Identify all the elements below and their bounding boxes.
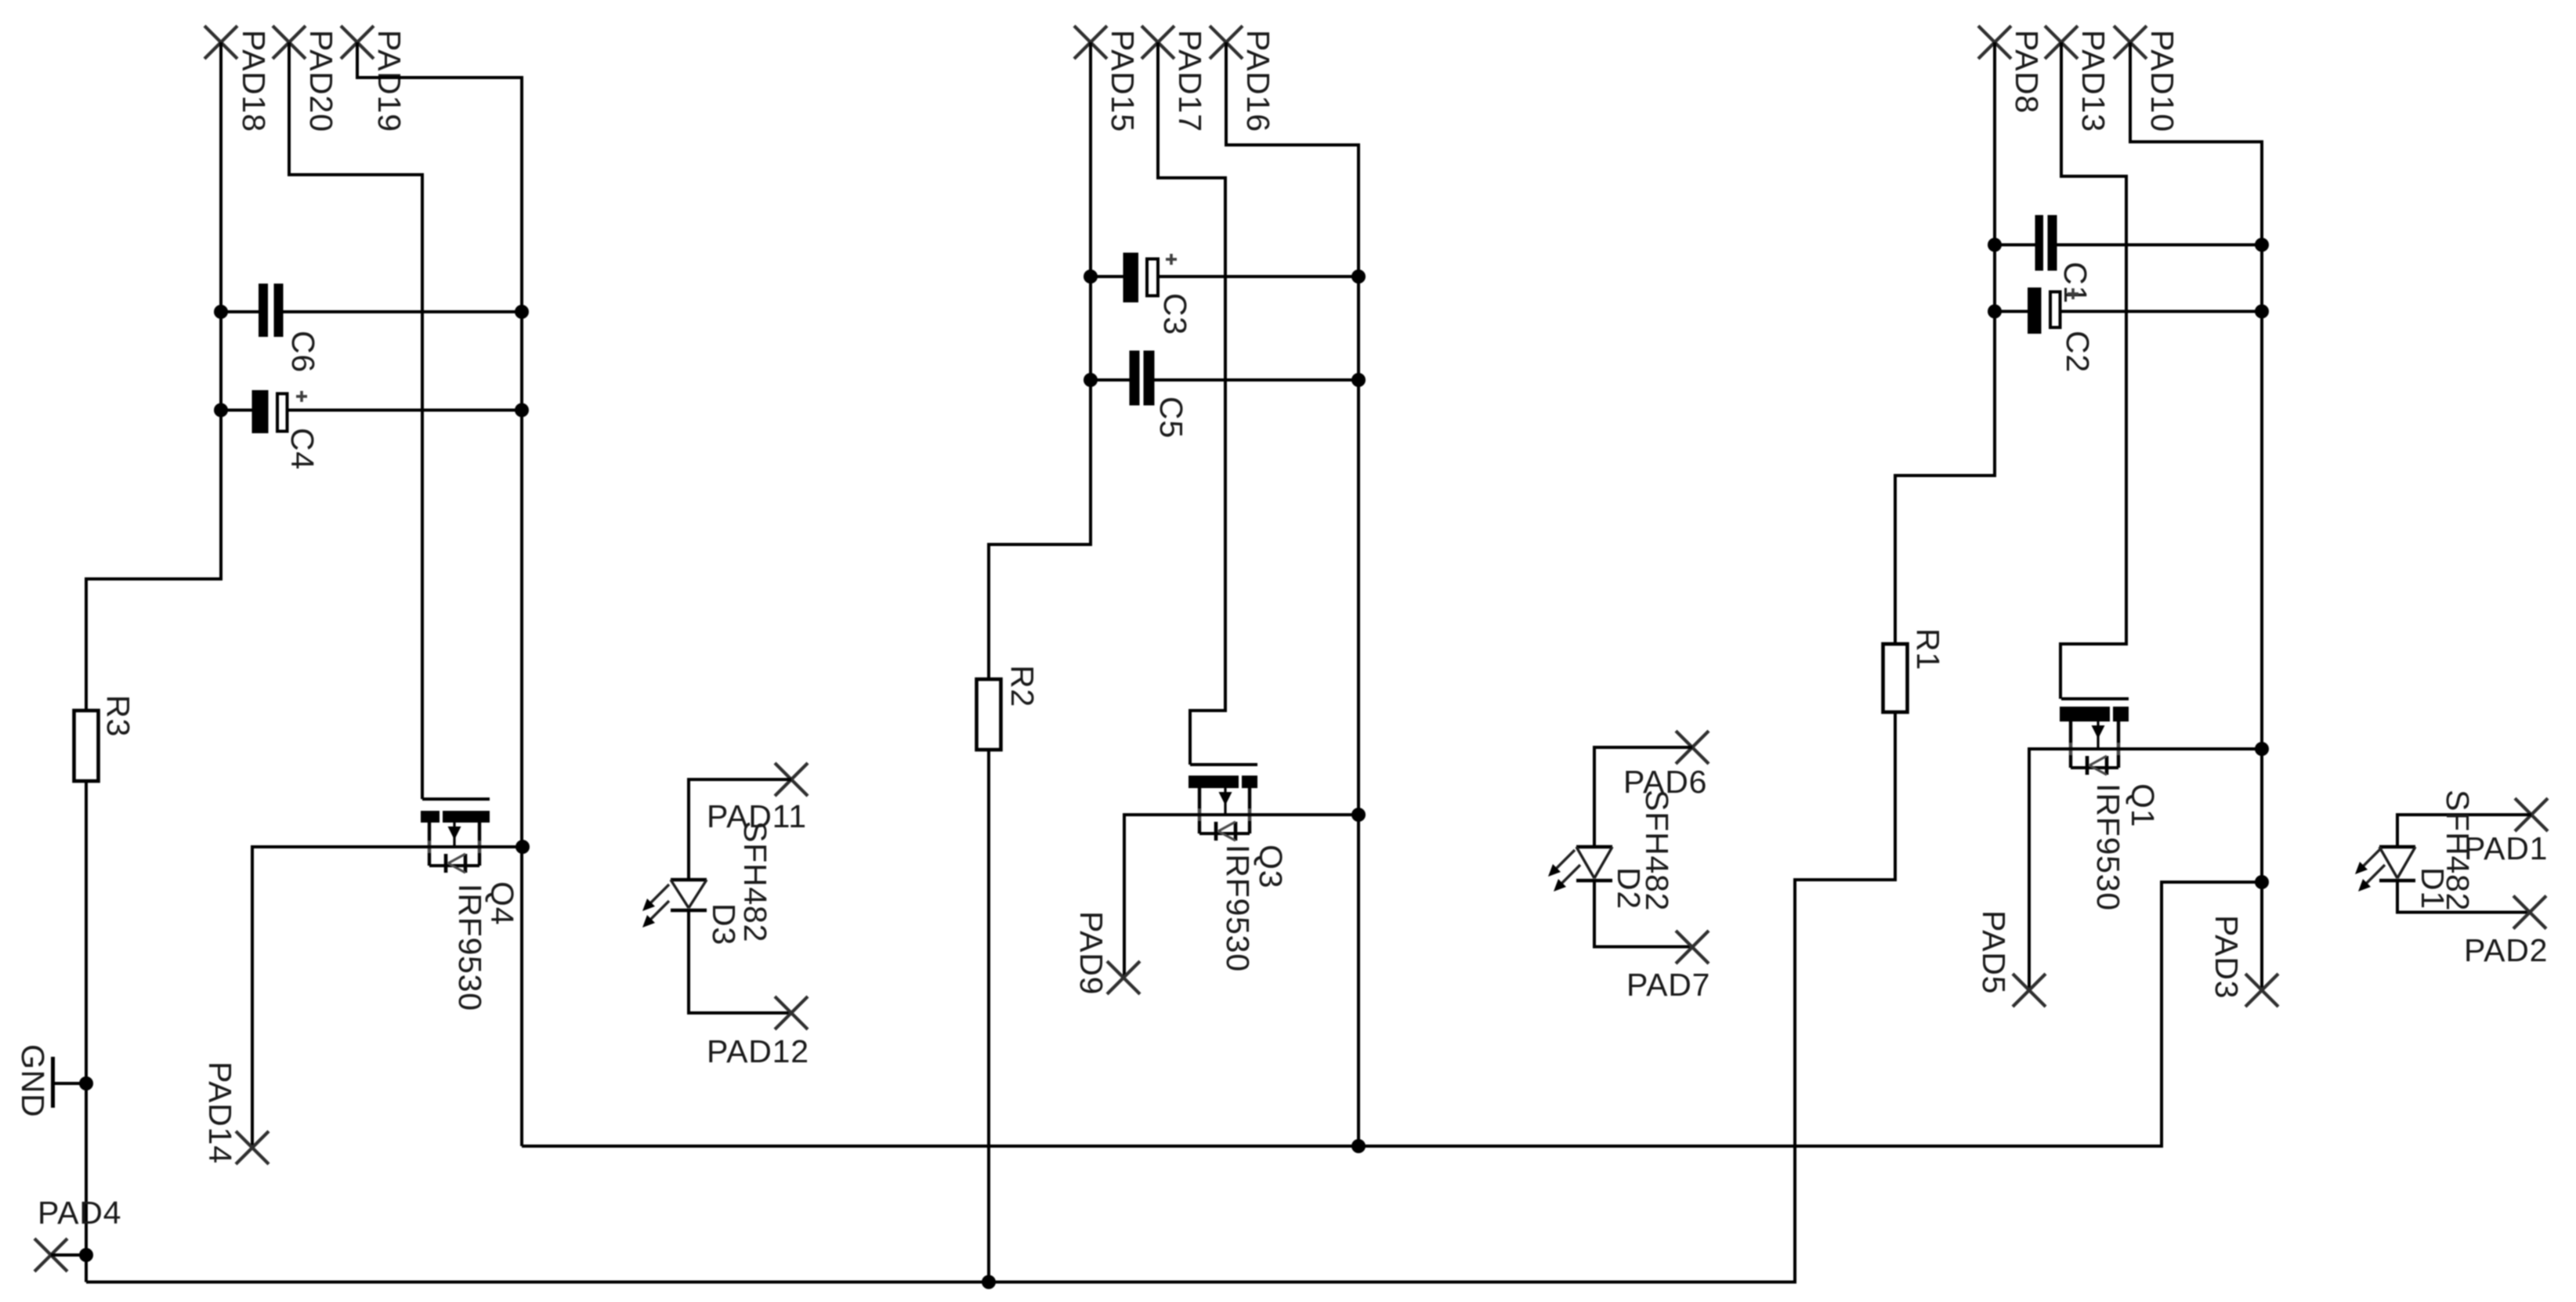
svg-text:PAD5: PAD5 <box>1976 910 2012 994</box>
wire D1 cathode to PAD2 <box>2397 881 2530 913</box>
junction C4 left <box>214 403 228 418</box>
junction C3 right <box>1351 269 1366 284</box>
diode D3 symbol <box>671 880 707 910</box>
pad PAD18 <box>204 26 237 59</box>
junction GND <box>79 1076 93 1090</box>
transistor Q4 pin marker 1 <box>423 841 436 853</box>
svg-text:PAD16: PAD16 <box>1240 30 1276 132</box>
transistor Q1 drain pin <box>2117 722 2120 768</box>
resistor R1 <box>1883 644 1908 712</box>
wire C5 right stub <box>1155 378 1359 382</box>
junction C1 left <box>1988 238 2002 252</box>
svg-text:D2: D2 <box>1611 867 1647 910</box>
capacitor C6 <box>259 284 284 337</box>
transistor Q1 channel plates <box>2060 707 2129 722</box>
wire PAD11 to D3 anode <box>689 779 791 880</box>
pad PAD2 <box>2513 896 2546 929</box>
wire C3 left stub <box>1091 275 1123 278</box>
junction C4 right <box>515 403 529 418</box>
svg-text:PAD8: PAD8 <box>2009 30 2045 114</box>
wire R3 to bottom rail <box>85 781 88 1282</box>
pad PAD3 <box>2245 974 2278 1007</box>
svg-text:PAD19: PAD19 <box>371 30 407 132</box>
svg-text:R2: R2 <box>1004 665 1040 707</box>
svg-text:C5: C5 <box>1153 396 1189 439</box>
svg-text:Q3: Q3 <box>1253 844 1289 888</box>
svg-text:C4: C4 <box>284 428 320 470</box>
junction Q4 bus <box>516 840 530 854</box>
transistor Q4 bottom loop <box>429 864 479 867</box>
svg-text:IRF9530: IRF9530 <box>2090 783 2126 911</box>
pad PAD6 <box>1676 731 1709 764</box>
svg-text:C1: C1 <box>2057 262 2093 304</box>
polarity mark C4 <box>296 391 307 402</box>
wire PAD5 riser and Q1 source line <box>2029 749 2262 990</box>
pad PAD10 <box>2114 26 2147 59</box>
wire C2 left stub <box>1995 310 2028 313</box>
transistor Q1 pin marker 1 <box>2064 743 2077 755</box>
svg-text:Q1: Q1 <box>2125 783 2161 827</box>
svg-text:D1: D1 <box>2415 867 2451 910</box>
wire bus A <box>522 882 2262 1146</box>
transistor Q3 bottom loop <box>1199 832 1250 835</box>
svg-text:IRF9530: IRF9530 <box>1220 844 1256 972</box>
wire C6 right stub <box>284 310 523 313</box>
transistor Q1 body arrow <box>2092 722 2105 749</box>
transistor Q3 pin marker 2 <box>1243 808 1256 821</box>
junction C3 left <box>1084 269 1098 284</box>
pad PAD9 <box>1107 961 1140 994</box>
svg-text:D3: D3 <box>706 903 742 946</box>
svg-text:PAD4: PAD4 <box>38 1195 121 1231</box>
polarity mark C2 <box>2068 288 2079 299</box>
svg-text:C6: C6 <box>285 331 321 373</box>
pad PAD7 <box>1676 931 1709 964</box>
pad PAD20 <box>273 26 306 59</box>
svg-text:C3: C3 <box>1157 293 1193 335</box>
wire C1 right stub <box>2057 244 2263 247</box>
diode D3 emission arrows <box>642 884 669 928</box>
junction C5 left <box>1084 373 1098 387</box>
wire Q3 gate bar <box>1190 763 1257 766</box>
junction C2 left <box>1988 305 2002 319</box>
svg-text:IRF9530: IRF9530 <box>452 884 488 1011</box>
junction Q1 bus <box>2255 742 2269 756</box>
svg-text:PAD20: PAD20 <box>303 30 339 132</box>
capacitor C2 <box>2028 288 2060 334</box>
transistor Q4 pin marker 2 <box>473 841 486 853</box>
junction Q3 bus <box>1351 808 1366 822</box>
capacitor C3 <box>1123 253 1159 303</box>
pad PAD8 <box>1978 26 2011 59</box>
wire PAD19 riser <box>357 42 522 1146</box>
wire D3 cathode to PAD12 <box>689 910 791 1013</box>
wire PAD16 riser <box>1226 42 1359 1146</box>
transistor Q4 body arrow <box>448 823 461 847</box>
diode D1 emission arrows <box>2355 848 2385 892</box>
wire PAD9 riser and Q3 source line <box>1124 815 1359 978</box>
wire C6 left stub <box>221 310 259 313</box>
wire C1 left stub <box>1995 244 2035 247</box>
wire PAD15 riser to R2 <box>989 42 1091 679</box>
svg-text:PAD15: PAD15 <box>1105 30 1141 132</box>
transistor Q3 channel plates <box>1189 776 1257 788</box>
pad PAD19 <box>341 26 374 59</box>
wire GND stub <box>53 1082 87 1085</box>
transistor Q4 drain pin <box>478 823 481 866</box>
pad PAD17 <box>1141 26 1174 59</box>
svg-text:PAD9: PAD9 <box>1073 911 1109 995</box>
junction R2 bus B <box>982 1275 996 1289</box>
junction C1 right <box>2255 238 2269 252</box>
capacitor C4 <box>252 390 288 433</box>
wire PAD20 to Q4 gate <box>289 42 422 799</box>
pad PAD1 <box>2515 798 2548 831</box>
wire PAD1 to D1 anode <box>2397 815 2531 847</box>
transistor Q3 body diode <box>1216 822 1236 841</box>
svg-text:PAD3: PAD3 <box>2209 915 2245 999</box>
svg-text:PAD12: PAD12 <box>707 1033 809 1069</box>
svg-text:PAD10: PAD10 <box>2144 30 2180 132</box>
svg-text:Q4: Q4 <box>484 881 520 925</box>
svg-text:PAD13: PAD13 <box>2075 30 2111 132</box>
wire PAD10 riser <box>2130 42 2262 990</box>
transistor Q3 body arrow <box>1219 788 1232 815</box>
svg-text:R1: R1 <box>1910 628 1946 671</box>
diode D1 symbol <box>2379 847 2415 881</box>
wire PAD4 stub <box>51 1253 86 1257</box>
svg-text:PAD7: PAD7 <box>1626 967 1710 1003</box>
junction C5 right <box>1351 373 1366 387</box>
transistor Q1 body diode <box>2087 756 2107 775</box>
wire C4 right stub <box>289 409 523 412</box>
ground GND bar <box>51 1057 55 1108</box>
wire C3 right stub <box>1160 275 1359 278</box>
svg-text:PAD17: PAD17 <box>1172 30 1208 132</box>
wire PAD18 riser to R3 <box>86 42 221 711</box>
svg-text:PAD1: PAD1 <box>2464 830 2548 866</box>
pad PAD11 <box>775 763 808 796</box>
polarity mark C3 <box>1166 254 1177 265</box>
diode D2 emission arrows <box>1548 850 1580 892</box>
pad PAD13 <box>2045 26 2078 59</box>
transistor Q3 source pin <box>1198 788 1201 834</box>
pad PAD12 <box>775 996 808 1029</box>
svg-text:R3: R3 <box>100 695 136 737</box>
resistor R3 <box>74 711 99 781</box>
transistor Q3 drain pin <box>1248 788 1251 834</box>
transistor Q1 source pin <box>2069 722 2072 768</box>
wire PAD17 to Q3 gate <box>1158 42 1225 765</box>
junction bus A x1734 <box>1351 1139 1366 1153</box>
wire D2 cathode to PAD7 <box>1594 881 1692 947</box>
svg-text:C2: C2 <box>2060 331 2096 373</box>
pad PAD14 <box>236 1131 269 1164</box>
resistor R2 <box>977 679 1001 750</box>
svg-text:PAD14: PAD14 <box>202 1061 238 1164</box>
svg-text:PAD18: PAD18 <box>236 30 272 132</box>
pad PAD5 <box>2013 974 2046 1007</box>
wire PAD14 riser and Q4 source line <box>252 847 523 1148</box>
junction node x2887 y1126 <box>2255 875 2269 889</box>
wire PAD6 to D2 anode <box>1594 747 1692 847</box>
junction C2 right <box>2255 305 2269 319</box>
transistor Q1 pin marker 2 <box>2112 743 2125 755</box>
wire bus B <box>86 712 1895 1282</box>
wire PAD8 riser to R1 <box>1895 42 1995 644</box>
capacitor C5 <box>1130 351 1155 406</box>
junction PAD4 <box>79 1248 93 1262</box>
wire Q4 gate bar <box>422 797 490 801</box>
transistor Q4 body diode <box>446 854 465 873</box>
pad PAD15 <box>1074 26 1107 59</box>
wire C4 left stub <box>221 409 252 412</box>
wire R2 to bus B <box>987 750 990 1282</box>
wire PAD13 to Q1 gate <box>2060 42 2126 699</box>
svg-text:PAD2: PAD2 <box>2464 932 2548 968</box>
transistor Q4 channel plates <box>421 811 490 823</box>
transistor Q3 pin marker 1 <box>1193 808 1206 821</box>
wire Q1 gate bar <box>2061 697 2129 700</box>
transistor Q4 source pin <box>428 823 431 866</box>
capacitor C1 <box>2035 215 2057 271</box>
wire C2 right stub <box>2062 310 2263 313</box>
transistor Q1 bottom loop <box>2071 766 2118 769</box>
junction C6 right <box>515 305 529 319</box>
junction C6 left <box>214 305 228 319</box>
diode D2 symbol <box>1576 847 1612 881</box>
pad PAD16 <box>1210 26 1243 59</box>
svg-text:GND: GND <box>15 1044 51 1118</box>
wire C5 left stub <box>1091 378 1130 382</box>
pad PAD4 <box>34 1239 67 1271</box>
